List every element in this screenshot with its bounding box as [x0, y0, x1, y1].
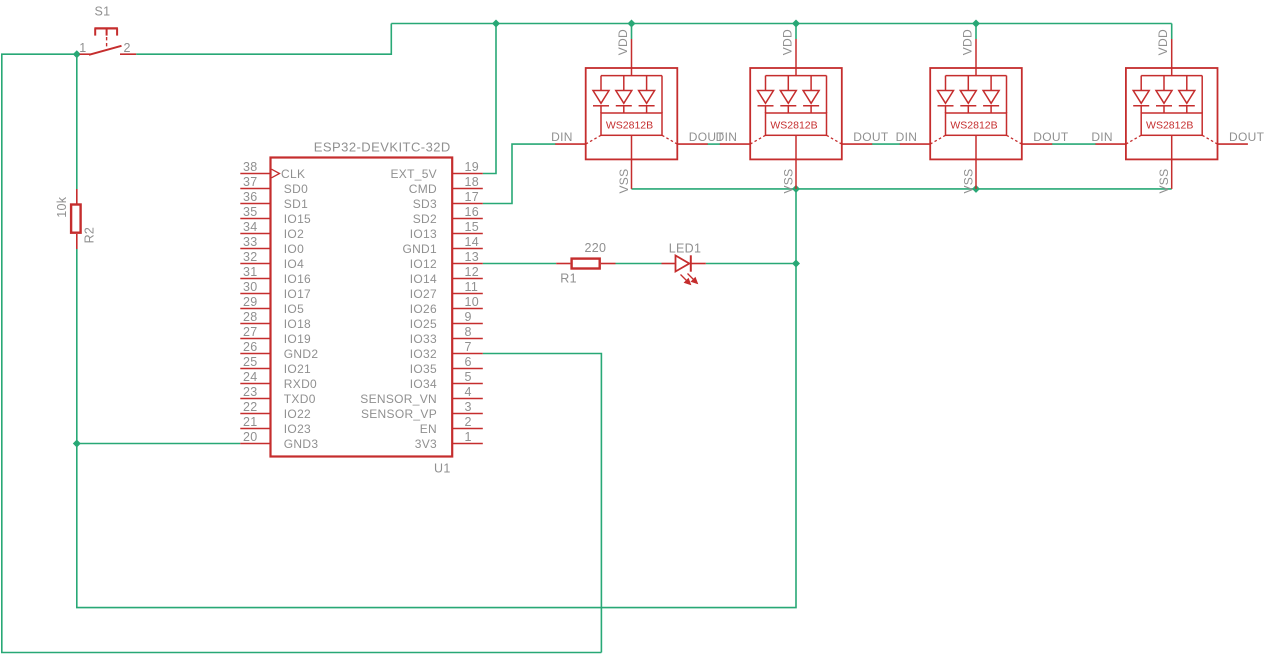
svg-text:IO15: IO15	[284, 212, 311, 226]
U1 pin 36 (SD1)	[240, 190, 308, 211]
svg-text:33: 33	[243, 235, 258, 249]
U1 pin 23 (TXD0)	[240, 385, 315, 406]
U1 pin 14 (GND1)	[402, 235, 482, 256]
module 3 LED diode 3	[983, 76, 999, 113]
svg-text:12: 12	[465, 265, 480, 279]
svg-text:30: 30	[243, 280, 258, 294]
junction VSS rail / module 2	[792, 185, 800, 193]
svg-text:SD0: SD0	[284, 182, 308, 196]
svg-text:IO14: IO14	[410, 272, 437, 286]
WS2812B LED module 3	[896, 29, 1069, 193]
R1 left lead	[556, 263, 570, 265]
svg-text:IO12: IO12	[410, 257, 437, 271]
svg-text:31: 31	[243, 265, 258, 279]
svg-text:10k: 10k	[55, 196, 69, 218]
junction GND node at pin 20	[73, 440, 81, 448]
svg-text:18: 18	[465, 175, 480, 189]
U1 pin 11 (IO27)	[410, 280, 483, 301]
wire riser to U1 pin 7 IO32	[483, 354, 602, 653]
module 2 LED diode 2	[780, 76, 796, 113]
svg-text:19: 19	[465, 160, 480, 174]
wire VDD stub module 2	[795, 24, 797, 40]
svg-text:35: 35	[243, 205, 258, 219]
svg-text:IO16: IO16	[284, 272, 311, 286]
svg-text:CLK: CLK	[281, 167, 305, 181]
svg-text:DOUT: DOUT	[853, 130, 889, 144]
module 2 VSS pin lead	[795, 159, 797, 189]
svg-text:S1: S1	[95, 5, 111, 19]
module 4 DOUT dashed link	[1202, 135, 1217, 144]
svg-text:IO2: IO2	[284, 227, 304, 241]
module 4 VSS pin lead	[1171, 159, 1173, 189]
U1 pin 10 (IO26)	[410, 295, 483, 316]
module 4 LED diode 2	[1156, 76, 1172, 113]
module 1 DIN pin stub	[555, 143, 585, 145]
U1 pin 31 (IO16)	[240, 265, 311, 286]
module 3 DOUT pin stub	[1022, 143, 1052, 145]
svg-text:R2: R2	[83, 227, 97, 244]
U1 pin 7 (IO32)	[410, 340, 483, 361]
svg-text:29: 29	[243, 295, 258, 309]
R1 right lead	[601, 263, 616, 265]
wire VDD stub module 1	[631, 24, 633, 40]
module 3 box	[930, 68, 1022, 159]
wire U1 pin17 SD3 to module1 DIN	[483, 144, 556, 203]
U1 pin 4 (SENSOR_VN)	[360, 385, 483, 406]
module 2 label box	[766, 113, 827, 135]
U1 pin 5 (IO34)	[410, 370, 483, 391]
module 4 anode bus	[1141, 75, 1202, 77]
U1 pin 16 (SD2)	[413, 205, 483, 226]
U1 pin 8 (IO33)	[410, 325, 483, 346]
svg-text:27: 27	[243, 325, 258, 339]
module 3 DIN dashed link	[930, 135, 945, 144]
R2 top lead	[76, 189, 78, 204]
svg-text:WS2812B: WS2812B	[950, 119, 997, 131]
module 1 box	[586, 68, 678, 159]
module 2 VDD pin lead	[795, 39, 797, 68]
svg-text:DIN: DIN	[896, 130, 918, 144]
svg-text:24: 24	[243, 370, 258, 384]
module 3 anode bus	[946, 75, 1007, 77]
svg-text:VDD: VDD	[781, 29, 795, 55]
LED1 triangle	[676, 256, 690, 272]
svg-text:14: 14	[465, 235, 480, 249]
module 4 VDD pin lead	[1171, 39, 1173, 68]
wire VDD stub module 4	[1171, 24, 1173, 40]
svg-text:WS2812B: WS2812B	[606, 119, 653, 131]
module 3 VSS pin lead	[975, 159, 977, 189]
U1 pin 29 (IO5)	[240, 295, 304, 316]
S1 blade	[89, 46, 122, 55]
wire 5V: switch pin2 to riser corner	[136, 24, 391, 55]
module 1 centre VSS line	[631, 135, 633, 159]
U1 pin 37 (SD0)	[240, 175, 308, 196]
wire module3 DOUT to module4 DIN	[1052, 143, 1096, 145]
svg-text:11: 11	[465, 280, 479, 294]
svg-text:IO4: IO4	[284, 257, 304, 271]
U1 pin 38 (CLK)	[240, 160, 305, 181]
svg-text:RXD0: RXD0	[284, 377, 317, 391]
svg-text:1: 1	[465, 430, 472, 444]
U1 pin 22 (IO22)	[240, 400, 311, 421]
svg-text:VDD: VDD	[616, 29, 630, 55]
svg-text:16: 16	[465, 205, 480, 219]
module 1 LED diode 3	[639, 76, 655, 113]
module 4 DOUT pin stub	[1218, 143, 1248, 145]
wire switch junction down to R2	[76, 54, 78, 189]
svg-text:23: 23	[243, 385, 258, 399]
svg-text:15: 15	[465, 220, 480, 234]
svg-text:2: 2	[465, 415, 472, 429]
module 2 DOUT dashed link	[827, 135, 842, 144]
LED1 anode stub	[662, 263, 676, 265]
svg-text:IO32: IO32	[410, 347, 437, 361]
module 1 anode bus	[601, 75, 662, 77]
U1 pin 33 (IO0)	[240, 235, 304, 256]
U1 pin 34 (IO2)	[240, 220, 304, 241]
wire module1 DOUT to module2 DIN	[707, 143, 720, 145]
U1 pin 17 (SD3)	[413, 190, 483, 211]
LED LED1	[662, 242, 706, 285]
U1 pin 15 (IO13)	[410, 220, 483, 241]
svg-text:TXD0: TXD0	[284, 392, 316, 406]
svg-text:VSS: VSS	[1157, 169, 1171, 194]
U1 pin 25 (IO21)	[240, 355, 311, 376]
svg-text:10: 10	[465, 295, 480, 309]
module 4 DIN pin stub	[1096, 143, 1126, 145]
svg-text:5: 5	[465, 370, 472, 384]
WS2812B LED module 4	[1091, 29, 1264, 193]
module 4 box	[1126, 68, 1218, 159]
svg-text:DIN: DIN	[716, 130, 738, 144]
junction LED1 cathode node	[792, 260, 800, 268]
module 2 internal VDD drop to bus	[795, 68, 797, 76]
U1 pin 6 (IO35)	[410, 355, 483, 376]
U1 pin 3 (SENSOR_VP)	[361, 400, 483, 421]
svg-text:ESP32-DEVKITC-32D: ESP32-DEVKITC-32D	[314, 140, 451, 155]
module 2 LED diode 1	[758, 76, 774, 113]
svg-text:32: 32	[243, 250, 258, 264]
svg-text:LED1: LED1	[669, 242, 701, 256]
module 4 inner right edge	[1201, 76, 1203, 113]
module 1 internal VDD drop to bus	[631, 68, 633, 76]
wire LED node up to VSS rail	[795, 189, 797, 264]
svg-text:EXT_5V: EXT_5V	[391, 167, 438, 181]
module 2 box	[750, 68, 842, 159]
svg-text:SD3: SD3	[413, 197, 437, 211]
module 4 label box	[1141, 113, 1202, 135]
svg-text:IO21: IO21	[284, 362, 311, 376]
svg-text:VDD: VDD	[961, 29, 975, 55]
svg-text:3: 3	[465, 400, 472, 414]
svg-text:IO19: IO19	[284, 332, 311, 346]
WS2812B LED module 1	[551, 29, 724, 193]
svg-text:DOUT: DOUT	[1229, 130, 1265, 144]
module 3 inner right edge	[1006, 76, 1008, 113]
svg-text:GND3: GND3	[284, 437, 319, 451]
module 1 LED diode 2	[616, 76, 632, 113]
svg-text:6: 6	[465, 355, 472, 369]
module 3 internal VDD drop to bus	[975, 68, 977, 76]
module 3 VDD pin lead	[975, 39, 977, 68]
R2 body	[71, 205, 81, 233]
LED1 cathode stub	[691, 263, 706, 265]
U1 pin 30 (IO17)	[240, 280, 311, 301]
wire button node: switch pin1 to left edge, down, bottom run to IO32 riser	[2, 54, 602, 652]
svg-text:U1: U1	[434, 461, 451, 475]
S1 actuator dashed link	[106, 37, 108, 50]
svg-text:IO22: IO22	[284, 407, 311, 421]
U1 pin 18 (CMD)	[409, 175, 483, 196]
LED1 cathode bar	[690, 255, 692, 271]
S1 pin 2 stub	[120, 53, 136, 55]
svg-text:2: 2	[124, 41, 131, 55]
wire GND run: down, right, up to LED cathode node	[77, 264, 796, 608]
svg-text:22: 22	[243, 400, 258, 414]
module 1 DOUT pin stub	[677, 143, 707, 145]
svg-text:VSS: VSS	[962, 169, 976, 194]
svg-text:EN: EN	[420, 422, 437, 436]
resistor R2 (10k, vertical)	[55, 189, 97, 249]
svg-text:SD2: SD2	[413, 212, 437, 226]
junction 5V rail / module 2 VDD	[792, 20, 800, 28]
svg-text:17: 17	[465, 190, 480, 204]
U1 pin 20 (GND3)	[240, 430, 318, 451]
switch S1	[79, 5, 136, 56]
U1 pin 28 (IO18)	[240, 310, 311, 331]
module 1 DIN dashed link	[586, 135, 601, 144]
junction 5V rail / module 1 VDD	[628, 20, 636, 28]
svg-text:SENSOR_VP: SENSOR_VP	[361, 407, 437, 421]
R2 bottom lead	[76, 234, 78, 249]
module 4 internal VDD drop to bus	[1171, 68, 1173, 76]
svg-text:CMD: CMD	[409, 182, 437, 196]
svg-text:13: 13	[465, 250, 480, 264]
svg-text:4: 4	[465, 385, 472, 399]
svg-text:GND2: GND2	[284, 347, 319, 361]
wire module2 DOUT to module3 DIN	[872, 143, 900, 145]
svg-text:7: 7	[465, 340, 472, 354]
module 4 centre VSS line	[1171, 135, 1173, 159]
module 1 label box	[601, 113, 662, 135]
U1 pin 2 (EN)	[420, 415, 483, 436]
U1 body	[271, 158, 453, 457]
svg-text:IO25: IO25	[410, 317, 437, 331]
module 3 label box	[946, 113, 1007, 135]
module 2 centre VSS line	[795, 135, 797, 159]
U1 pin 32 (IO4)	[240, 250, 304, 271]
svg-text:IO0: IO0	[284, 242, 304, 256]
svg-text:36: 36	[243, 190, 258, 204]
U1 pin 19 (EXT_5V)	[391, 160, 483, 181]
U1 pin 35 (IO15)	[240, 205, 311, 226]
svg-text:20: 20	[243, 430, 258, 444]
module 1 VSS pin lead	[631, 159, 633, 189]
wire U1 pin13 IO12 to R1	[483, 263, 556, 265]
module 1 LED diode 1	[593, 76, 609, 113]
U1 pin 21 (IO23)	[240, 415, 311, 436]
svg-text:IO17: IO17	[284, 287, 311, 301]
module 3 DOUT dashed link	[1007, 135, 1022, 144]
LED1 emission arrows	[681, 274, 698, 285]
resistor R1 (220, horizontal)	[556, 241, 615, 285]
svg-text:VSS: VSS	[782, 169, 796, 194]
junction switch pin1 / R2 / IO32 loop	[73, 50, 81, 58]
module 2 inner right edge	[826, 76, 828, 113]
svg-text:IO23: IO23	[284, 422, 311, 436]
svg-text:DOUT: DOUT	[1033, 130, 1069, 144]
svg-text:1: 1	[79, 41, 86, 55]
svg-text:IO27: IO27	[410, 287, 437, 301]
wire VSS rail	[632, 188, 1172, 190]
svg-text:21: 21	[243, 415, 258, 429]
module 2 DIN pin stub	[720, 143, 750, 145]
wire VDD stub module 3	[975, 24, 977, 40]
module 3 DIN pin stub	[900, 143, 930, 145]
module 3 LED diode 1	[938, 76, 954, 113]
svg-text:SENSOR_VN: SENSOR_VN	[360, 392, 437, 406]
module 4 LED diode 3	[1179, 76, 1195, 113]
svg-text:IO13: IO13	[410, 227, 437, 241]
junction 5V rail / pin19 drop	[492, 20, 500, 28]
svg-text:IO33: IO33	[410, 332, 437, 346]
wire GND junction to U1 pin 20 GND3	[77, 443, 241, 445]
module 4 LED diode 1	[1133, 76, 1149, 113]
U1 pin 24 (RXD0)	[240, 370, 317, 391]
wire 5V top rail	[391, 23, 1171, 25]
svg-text:VDD: VDD	[1156, 29, 1170, 55]
module 3 centre VSS line	[975, 135, 977, 159]
U1 pin 13 (IO12)	[410, 250, 483, 271]
U1 pin 12 (IO14)	[410, 265, 483, 286]
module 4 DIN dashed link	[1126, 135, 1141, 144]
module 2 DIN dashed link	[750, 135, 765, 144]
module 2 DOUT pin stub	[842, 143, 872, 145]
U1 pin 27 (IO19)	[240, 325, 311, 346]
svg-text:VSS: VSS	[617, 169, 631, 194]
svg-text:IO5: IO5	[284, 302, 304, 316]
wire R1 to LED1	[616, 263, 662, 265]
svg-text:8: 8	[465, 325, 472, 339]
svg-text:37: 37	[243, 175, 258, 189]
WS2812B LED module 2	[716, 29, 889, 193]
wire LED1 cathode to GND node	[706, 263, 796, 265]
wire 5V drop to U1 pin 19 EXT_5V	[483, 24, 496, 174]
module 1 DOUT dashed link	[662, 135, 677, 144]
svg-text:WS2812B: WS2812B	[1146, 119, 1193, 131]
junction VSS rail / module 3	[972, 185, 980, 193]
svg-text:26: 26	[243, 340, 258, 354]
U1 pin 1 (3V3)	[415, 430, 483, 451]
svg-text:28: 28	[243, 310, 258, 324]
svg-text:GND1: GND1	[402, 242, 437, 256]
module 1 VDD pin lead	[631, 39, 633, 68]
svg-text:IO26: IO26	[410, 302, 437, 316]
svg-text:220: 220	[585, 241, 607, 255]
module 2 anode bus	[766, 75, 827, 77]
module 1 inner right edge	[661, 76, 663, 113]
R1 body	[572, 259, 600, 269]
svg-text:IO35: IO35	[410, 362, 437, 376]
wire R2 bottom to GND junction	[76, 249, 78, 444]
op IC U1 ESP32-DEVKITC-32D	[240, 140, 482, 476]
U1 pin 9 (IO25)	[410, 310, 483, 331]
svg-text:IO34: IO34	[410, 377, 437, 391]
svg-text:WS2812B: WS2812B	[770, 119, 817, 131]
svg-text:34: 34	[243, 220, 258, 234]
svg-text:SD1: SD1	[284, 197, 308, 211]
module 3 LED diode 2	[960, 76, 976, 113]
svg-text:IO18: IO18	[284, 317, 311, 331]
module 2 LED diode 3	[803, 76, 819, 113]
junction 5V rail / module 3 VDD	[972, 20, 980, 28]
svg-text:9: 9	[465, 310, 472, 324]
svg-text:DIN: DIN	[551, 130, 573, 144]
svg-text:25: 25	[243, 355, 258, 369]
S1 pin 1 stub	[80, 53, 91, 55]
svg-text:DIN: DIN	[1091, 130, 1113, 144]
S1 actuator bracket	[94, 27, 118, 29]
svg-text:38: 38	[243, 160, 258, 174]
svg-text:3V3: 3V3	[415, 437, 437, 451]
svg-text:R1: R1	[560, 271, 577, 285]
U1 pin 26 (GND2)	[240, 340, 318, 361]
